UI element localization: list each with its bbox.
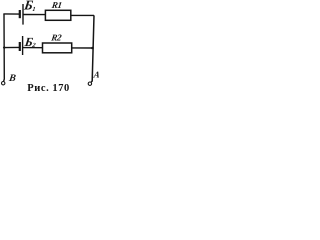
- terminal B: [2, 82, 5, 85]
- wire left vertical (node B riser): [3, 14, 6, 82]
- svg-text:Рис. 170: Рис. 170: [27, 83, 70, 94]
- wire battery B2 to R2: [23, 47, 43, 49]
- wire R2 to right riser: [72, 47, 93, 49]
- wire R1 to right riser: [71, 14, 94, 16]
- battery B1: [20, 4, 23, 25]
- resistor R1: [45, 10, 70, 20]
- wire battery B1 to R1: [23, 14, 46, 16]
- wire middle row left segment: [4, 46, 19, 48]
- resistor R2: [43, 43, 72, 53]
- junction left: [3, 46, 5, 48]
- terminal A: [88, 82, 91, 85]
- junction right: [91, 47, 94, 50]
- svg-text:R1: R1: [50, 0, 62, 10]
- battery B2: [20, 36, 23, 55]
- wire right vertical (node A riser): [91, 15, 94, 82]
- wire top row left segment: [3, 13, 19, 15]
